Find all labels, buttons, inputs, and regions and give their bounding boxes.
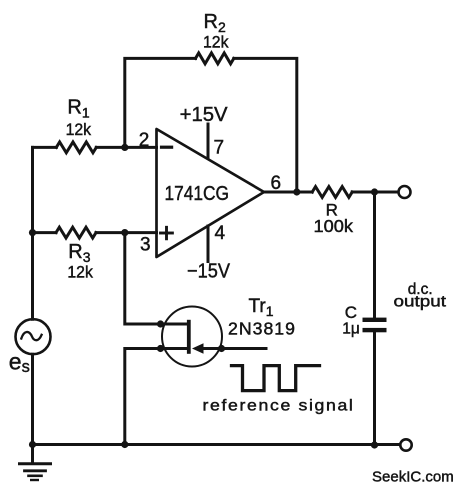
svg-text:12k: 12k: [67, 264, 93, 282]
svg-text:4: 4: [215, 223, 226, 244]
svg-text:reference signal: reference signal: [203, 398, 355, 415]
svg-text:1μ: 1μ: [342, 321, 360, 338]
svg-text:12k: 12k: [66, 121, 92, 139]
svg-text:2N3819: 2N3819: [228, 319, 296, 339]
svg-text:−15V: −15V: [187, 261, 231, 283]
svg-text:7: 7: [214, 138, 225, 159]
svg-text:12k: 12k: [203, 33, 229, 51]
svg-text:100k: 100k: [314, 216, 354, 236]
svg-text:1741CG: 1741CG: [165, 182, 230, 205]
svg-text:SeekIC.com: SeekIC.com: [372, 469, 454, 486]
svg-text:2: 2: [139, 130, 150, 151]
svg-text:+15V: +15V: [180, 104, 229, 126]
svg-text:3: 3: [140, 235, 151, 256]
svg-text:C: C: [345, 303, 357, 322]
svg-text:6: 6: [271, 173, 282, 194]
svg-text:output: output: [394, 294, 447, 311]
